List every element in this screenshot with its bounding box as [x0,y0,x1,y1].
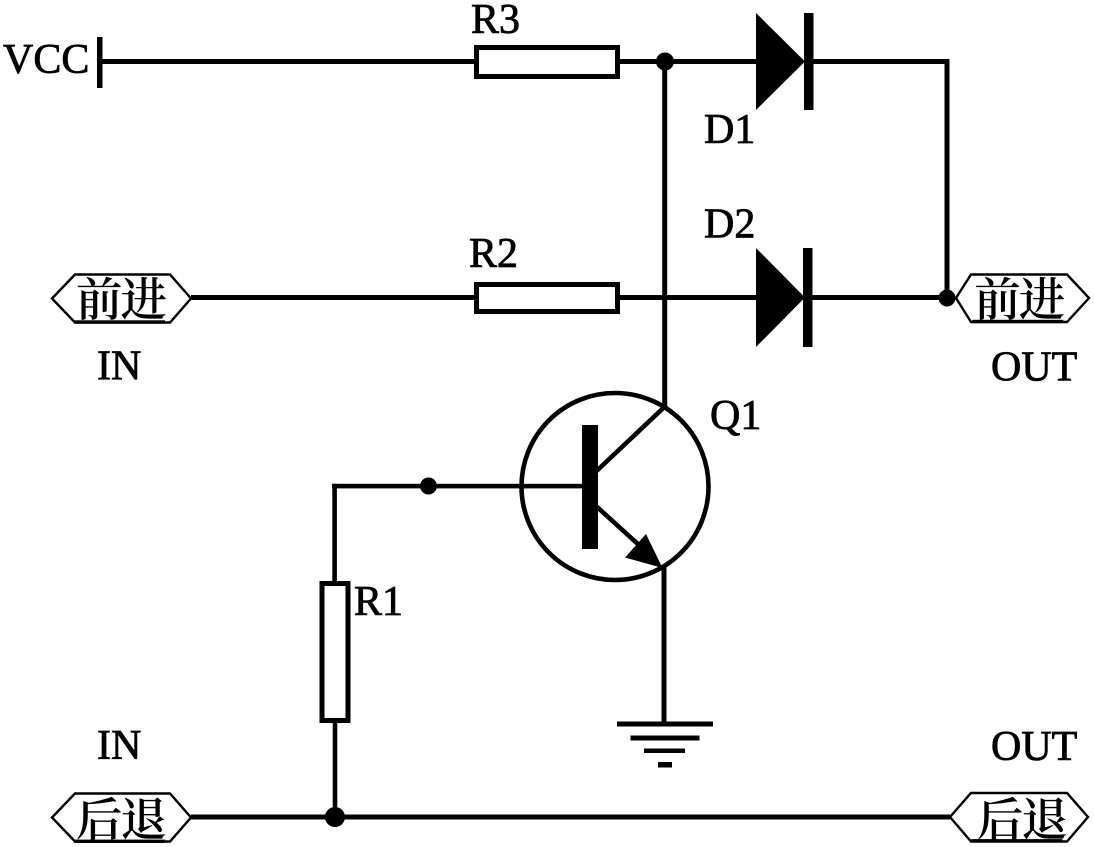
wire D2 to node B [812,295,948,300]
node B junction dot [939,290,956,307]
transistor Q1 [522,393,709,580]
resistor R1 [322,584,348,721]
base wire to Q1 [332,484,582,489]
wire R2 to D2 [618,295,760,300]
wire node A down to Q1 collector [662,61,667,408]
port OUT (top-right) hexagon 前进 [956,275,1089,324]
svg-text:OUT: OUT [991,345,1077,391]
wire 前进 IN to R2 [191,295,476,300]
svg-text:Q1: Q1 [710,393,761,439]
svg-text:R3: R3 [471,0,520,43]
node A junction dot [656,53,674,71]
ground [617,722,713,768]
node C junction dot on base wire [420,478,437,495]
wire VCC to R3 [100,59,476,64]
svg-text:VCC: VCC [3,37,89,83]
svg-text:D2: D2 [704,202,755,248]
wire node A to D1 [665,59,760,64]
bottom wire 后退 IN to 后退 OUT [191,815,950,820]
svg-text:R2: R2 [469,231,518,277]
wire D1 to top-right corner [813,59,950,64]
wire corner down to node B [945,59,950,298]
svg-text:OUT: OUT [991,724,1077,770]
diode D2 [756,248,813,347]
wire base corner down to R1 [332,484,337,583]
svg-text:D1: D1 [704,107,755,153]
port IN (bottom-left) hexagon 后退 [52,794,191,844]
svg-text:IN: IN [97,344,141,390]
port IN (top-left) hexagon 前进 [52,275,191,324]
resistor R3 [477,48,618,77]
emitter wire Q1 to ground [662,566,667,723]
VCC terminal bar [97,37,103,88]
resistor R2 [477,285,618,312]
wire R3 to node A [618,59,665,64]
svg-text:IN: IN [97,723,141,769]
svg-text:R1: R1 [354,579,403,625]
node D junction dot [325,807,345,827]
wire R1 to node D [333,719,338,817]
diode D1 [756,13,814,110]
port OUT (bottom-right) hexagon 后退 [950,793,1088,843]
